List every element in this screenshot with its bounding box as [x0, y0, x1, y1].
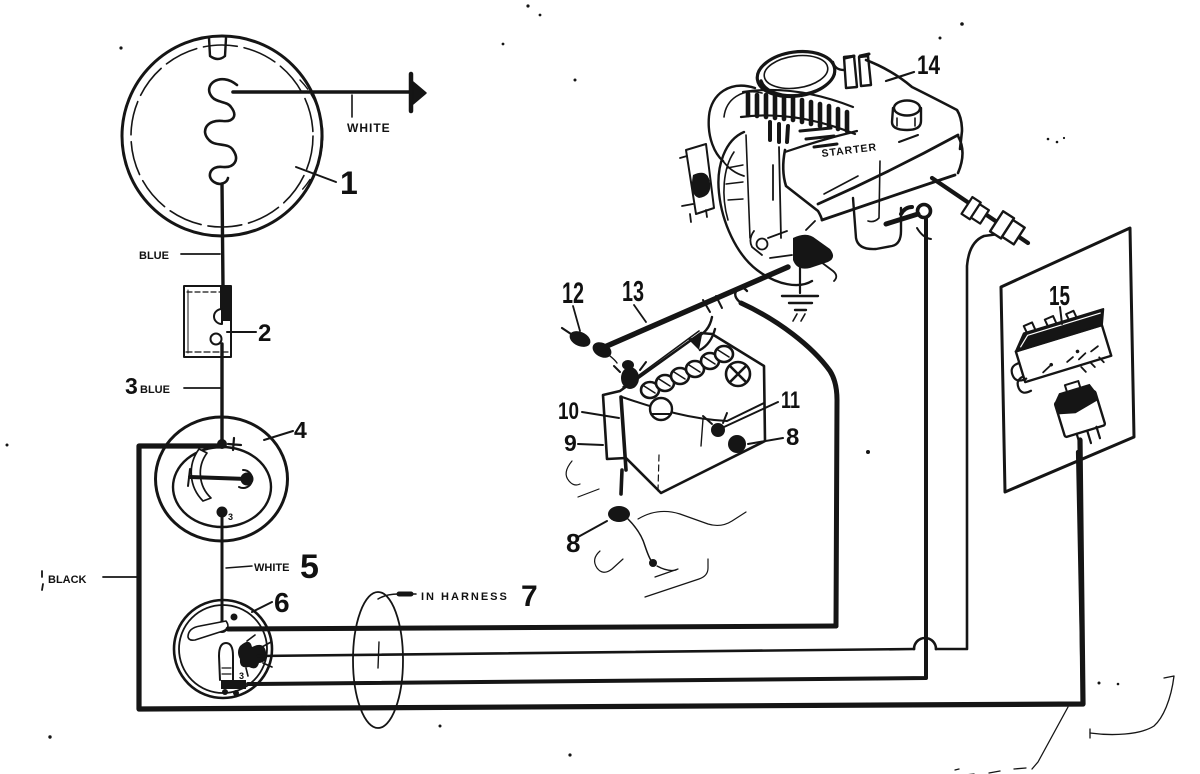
svg-text:5: 5 — [300, 548, 319, 586]
svg-text:10: 10 — [558, 398, 579, 425]
svg-text:3: 3 — [239, 671, 244, 681]
svg-text:15: 15 — [1049, 280, 1070, 311]
svg-text:13: 13 — [622, 276, 644, 308]
svg-text:8: 8 — [786, 424, 799, 451]
svg-text:BLUE: BLUE — [139, 250, 169, 262]
svg-text:12: 12 — [562, 277, 584, 310]
svg-text:WHITE: WHITE — [254, 562, 289, 574]
svg-text:3: 3 — [228, 512, 233, 522]
svg-text:IN HARNESS: IN HARNESS — [421, 591, 509, 603]
svg-text:1: 1 — [340, 165, 358, 201]
svg-text:4: 4 — [294, 417, 307, 443]
svg-text:WHITE: WHITE — [347, 121, 391, 135]
svg-text:11: 11 — [781, 387, 800, 414]
svg-text:6: 6 — [274, 587, 290, 618]
svg-text:3: 3 — [125, 373, 138, 399]
svg-text:14: 14 — [917, 50, 940, 80]
svg-text:7: 7 — [521, 580, 538, 613]
svg-text:BLACK: BLACK — [48, 574, 87, 586]
svg-text:2: 2 — [258, 320, 271, 347]
svg-text:9: 9 — [564, 430, 577, 456]
svg-text:BLUE: BLUE — [140, 384, 170, 396]
svg-text:8: 8 — [566, 528, 580, 558]
